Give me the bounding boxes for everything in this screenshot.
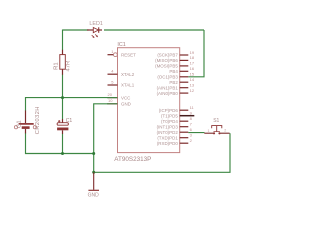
svg-text:(INT1)PD3: (INT1)PD3 (157, 124, 179, 129)
pin 12 PB0 stub (180, 92, 189, 94)
pin names left inside box (121, 52, 136, 106)
wire PD2 to switch S1 (188, 132, 204, 134)
svg-text:8: 8 (190, 116, 193, 121)
svg-text:XTAL1: XTAL1 (121, 83, 135, 88)
wire battery minus to GND rail (26, 133, 94, 154)
svg-text:13: 13 (190, 83, 195, 88)
switch actuator (212, 126, 222, 129)
pin 14 PB2 stub (180, 81, 189, 83)
svg-text:GND: GND (88, 192, 100, 198)
svg-text:9: 9 (190, 111, 193, 116)
LED LED1 (87, 29, 93, 31)
svg-text:IC1: IC1 (117, 42, 125, 48)
svg-text:17: 17 (190, 61, 195, 66)
svg-text:LED1: LED1 (89, 21, 103, 27)
battery G1 (25, 111, 27, 124)
svg-text:C1: C1 (66, 118, 73, 124)
wire GND overlay at pin 10 (107, 103, 118, 105)
ic IC1 box (118, 48, 180, 153)
plus mark of C1 (58, 120, 60, 122)
wire R1 bottom to VCC rail to C1 (62, 75, 64, 120)
pin numbers right (190, 50, 195, 143)
pin 11 PD6 stub (180, 109, 189, 111)
pin 19 PB7 stub (180, 54, 189, 56)
svg-text:(INT0)PD2: (INT0)PD2 (157, 130, 179, 135)
svg-text:1: 1 (208, 129, 210, 133)
svg-text:5: 5 (111, 79, 114, 84)
svg-text:XTAL2: XTAL2 (121, 72, 135, 77)
wire VCC rail battery to IC pin20 (26, 98, 118, 111)
svg-text:CR2032H: CR2032H (35, 106, 41, 134)
pin 17 PB5 stub (180, 65, 189, 67)
pin 7 PD3 stub (180, 126, 189, 128)
wire VCC top from R1 to LED to right (63, 29, 89, 31)
svg-text:7: 7 (190, 122, 193, 127)
svg-text:19: 19 (190, 50, 195, 55)
svg-text:15: 15 (190, 72, 195, 77)
pin 3 PD1 stub (180, 137, 189, 139)
pin 4 XTAL2 stub (108, 73, 118, 75)
wire C1 bottom to GND rail (62, 134, 64, 154)
svg-text:S1: S1 (213, 118, 219, 124)
pin 5 XTAL1 stub (108, 84, 118, 86)
svg-text:18: 18 (190, 55, 195, 60)
svg-text:GND: GND (121, 102, 131, 107)
svg-text:G1: G1 (17, 120, 23, 128)
svg-text:11: 11 (190, 105, 195, 110)
capacitor C1 (62, 119, 64, 123)
wire VCC overlay at pin 20 (107, 97, 118, 99)
pin 15 PB3 stub (180, 76, 189, 78)
svg-text:R1: R1 (54, 62, 60, 70)
pin 2 PD0 stub (180, 142, 189, 144)
wire GND riser and pin10 link (94, 104, 108, 173)
resistor R1 (62, 50, 64, 75)
wire right descent to PB3 (188, 30, 204, 77)
svg-text:16: 16 (190, 66, 195, 71)
svg-text:14: 14 (190, 77, 195, 82)
svg-text:3: 3 (190, 133, 193, 138)
junction node GND return (92, 171, 95, 174)
svg-text:(T0)PD4: (T0)PD4 (161, 119, 178, 124)
ground symbol GND (93, 172, 95, 190)
pin stubs right PB7..PB0 (180, 55, 195, 143)
svg-text:(MOSI)PB5: (MOSI)PB5 (155, 64, 178, 69)
junction node GND rail riser (92, 152, 95, 155)
svg-text:(T1)PD5: (T1)PD5 (161, 113, 178, 118)
svg-text:47R: 47R (65, 61, 71, 72)
svg-text:20: 20 (108, 92, 113, 97)
pin 20 VCC stub (108, 97, 118, 99)
svg-text:(AIN1)PB1: (AIN1)PB1 (157, 85, 179, 90)
svg-text:2: 2 (224, 129, 226, 133)
svg-text:AT90S2313P: AT90S2313P (114, 156, 151, 163)
wire LED anode to corner (104, 29, 204, 31)
pin 10 GND stub (108, 103, 118, 105)
svg-text:(AIN0)PB0: (AIN0)PB0 (157, 91, 179, 96)
svg-text:(ICP)PD6: (ICP)PD6 (159, 108, 179, 113)
junction node VCC at R1/C1 column (61, 96, 64, 99)
pin names right inside box (155, 53, 178, 146)
svg-text:(MISO)PB6: (MISO)PB6 (155, 58, 178, 63)
svg-text:PB2: PB2 (169, 80, 178, 85)
junction node GND at C1 bottom (61, 152, 64, 155)
svg-text:2: 2 (190, 138, 193, 143)
pin 6 PD2 stub (180, 131, 189, 133)
pin 1 RESET stub with bubble (108, 54, 114, 56)
wire top of R1 column (62, 30, 64, 51)
pin 9 PD5 stub (dark) (180, 115, 195, 117)
svg-text:12: 12 (190, 88, 195, 93)
svg-text:(OC1)PB3: (OC1)PB3 (157, 75, 178, 80)
svg-text:(TXD)PD1: (TXD)PD1 (157, 135, 178, 140)
switch S1 (204, 132, 213, 134)
LED arrows (92, 34, 98, 37)
svg-text:10: 10 (108, 98, 113, 103)
pin 13 PB1 stub (180, 87, 189, 89)
svg-text:RESET: RESET (121, 52, 136, 57)
svg-text:(RXD)PD0: (RXD)PD0 (157, 141, 178, 146)
svg-text:6: 6 (190, 127, 193, 132)
svg-text:(SCK)PB7: (SCK)PB7 (157, 53, 178, 58)
svg-text:4: 4 (111, 69, 114, 74)
pin 8 PD4 stub (180, 120, 189, 122)
wire bottom return from switch (94, 133, 230, 172)
pin 16 PB4 stub (180, 70, 189, 72)
svg-text:PB4: PB4 (169, 69, 178, 74)
svg-text:VCC: VCC (121, 95, 131, 100)
pin 18 PB6 stub (180, 59, 189, 61)
pin numbers left (108, 49, 115, 103)
